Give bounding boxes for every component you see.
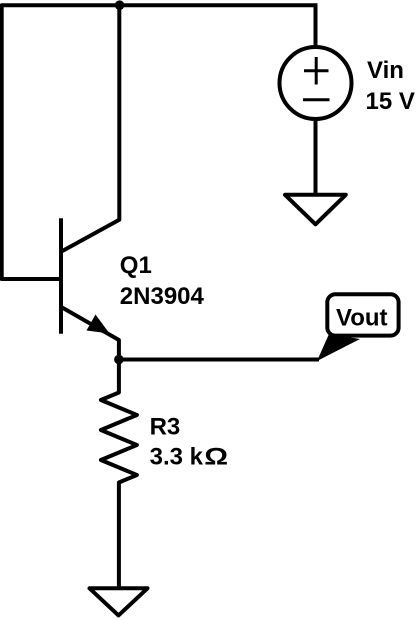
svg-text:Vout: Vout xyxy=(336,305,388,332)
svg-text:R3: R3 xyxy=(150,414,181,441)
svg-text:Ω: Ω xyxy=(204,443,228,470)
svg-text:2N3904: 2N3904 xyxy=(120,283,205,310)
svg-text:3.3 k: 3.3 k xyxy=(150,443,204,470)
svg-text:Vin: Vin xyxy=(367,57,404,84)
svg-text:15 V: 15 V xyxy=(366,88,415,115)
svg-text:Q1: Q1 xyxy=(120,252,152,279)
